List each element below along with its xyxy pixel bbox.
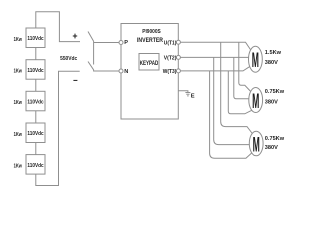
svg-text:M: M [252,89,259,113]
svg-text:E: E [191,94,195,100]
svg-text:M: M [252,49,259,73]
svg-text:P: P [124,40,128,46]
svg-text:110Vdc: 110Vdc [27,100,43,106]
svg-text:380V: 380V [265,145,278,151]
svg-text:1Kw: 1Kw [14,132,23,138]
svg-text:W(T3): W(T3) [163,69,177,75]
svg-text:1Kw: 1Kw [14,163,23,169]
svg-text:0.75Kw: 0.75Kw [265,136,285,142]
svg-text:1.5Kw: 1.5Kw [265,50,282,56]
svg-text:110Vdc: 110Vdc [27,131,43,137]
svg-text:V(T2): V(T2) [164,56,177,62]
svg-text:110Vdc: 110Vdc [27,163,43,169]
svg-text:N: N [124,69,128,75]
svg-text:380V: 380V [265,100,278,106]
svg-text:PI9000S: PI9000S [142,29,161,35]
svg-text:110Vdc: 110Vdc [27,36,43,42]
svg-text:550Vdc: 550Vdc [60,56,77,62]
svg-text:1Kw: 1Kw [14,37,23,43]
svg-text:INVERTER: INVERTER [137,38,164,44]
svg-text:M: M [253,133,260,157]
svg-text:1Kw: 1Kw [14,100,23,106]
svg-text:1Kw: 1Kw [14,69,23,75]
svg-text:U(T1): U(T1) [164,40,177,46]
svg-text:KEYPAD: KEYPAD [140,60,159,67]
svg-text:110Vdc: 110Vdc [27,68,43,74]
svg-text:0.75Kw: 0.75Kw [265,89,285,95]
svg-text:380V: 380V [265,60,278,66]
